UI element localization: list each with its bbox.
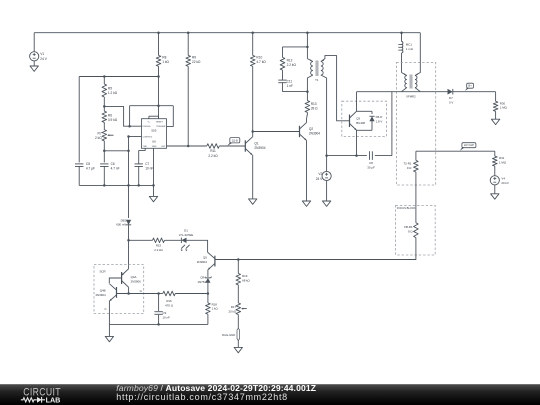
potentiometer R17 20k [236, 303, 241, 315]
svg-text:HV CAP: HV CAP [464, 143, 474, 147]
svg-text:10 nF: 10 nF [145, 167, 153, 171]
svg-text:D7: D7 [449, 96, 453, 100]
resistor R12 2.2k [280, 57, 285, 70]
resistor R10 4.7k [252, 33, 254, 56]
svg-text:R11: R11 [210, 149, 216, 153]
wire 555 OUT to R11 [167, 145, 207, 147]
LED D1 light arrows [181, 245, 185, 249]
capacitor C9 10nF [158, 294, 160, 312]
svg-text:2N3904: 2N3904 [95, 293, 106, 297]
pin V+ top [148, 116, 150, 119]
svg-text:1 kΩ: 1 kΩ [162, 60, 169, 64]
svg-text:Q5: Q5 [203, 256, 207, 260]
svg-text:B+: B+ [468, 84, 472, 88]
svg-text:0 V: 0 V [449, 100, 453, 104]
svg-text:2.2 kΩ: 2.2 kΩ [154, 248, 163, 252]
svg-text:CONTROL: CONTROL [143, 136, 154, 138]
svg-text:1 kΩ: 1 kΩ [212, 307, 219, 311]
svg-text:R19: R19 [242, 274, 248, 278]
svg-text:C: C [105, 307, 107, 311]
svg-text:C8: C8 [369, 161, 373, 165]
wire top power rail [34, 32, 420, 34]
svg-text:68 kΩ: 68 kΩ [242, 279, 250, 283]
svg-text:GND: GND [152, 146, 157, 148]
svg-text:C6: C6 [111, 162, 115, 166]
svg-text:R13: R13 [311, 102, 317, 106]
capacitor C11 1nF [278, 79, 286, 81]
ground for V2 [322, 201, 330, 206]
svg-text:1 MΩ: 1 MΩ [500, 106, 508, 110]
svg-text:R30: R30 [500, 101, 506, 105]
transformer XFMR2 core [409, 75, 411, 89]
wire reset loop from R8 node [130, 105, 174, 107]
svg-text:R10: R10 [256, 56, 262, 60]
net flag Q1-B [230, 138, 240, 143]
ground for Q2 [302, 201, 310, 206]
resistor R13 39ohm [306, 92, 308, 101]
transformer T1 core [315, 61, 317, 77]
svg-text:D5-D: D5-D [376, 115, 383, 119]
wire XFMR2 bottom leads [402, 88, 407, 92]
transformer T1 left winding [311, 62, 313, 76]
resistor R6 3.9k [102, 111, 107, 122]
wire Q1 collector to Q2 base [253, 131, 300, 133]
wire Q4A collector to gate [128, 287, 130, 293]
wire [103, 122, 105, 129]
svg-text:R16: R16 [166, 299, 172, 303]
svg-text:24 V: 24 V [40, 57, 47, 61]
wire [282, 70, 284, 80]
wire SCR cathode [108, 301, 110, 325]
wire R15 to D1 [165, 239, 182, 241]
wire Q4A base to Q4B collector [109, 278, 121, 283]
wire Q5 emitter to CR4 [207, 270, 209, 277]
svg-text:R31: R31 [499, 156, 505, 160]
svg-text:D1: D1 [184, 228, 188, 232]
svg-text:24 V: 24 V [316, 177, 323, 181]
transformer XFMR2 dots [404, 74, 405, 75]
wire C8 to collector node riser [375, 155, 392, 157]
diode D7 [448, 89, 453, 95]
net flag DAG-GND [237, 328, 240, 340]
wire V2/emitter node [327, 155, 367, 157]
zener CR4 1N754 [205, 278, 210, 283]
transformer T1 dots [310, 60, 311, 61]
voltage source V1 24V [33, 33, 35, 52]
svg-text:2.2 kΩ: 2.2 kΩ [287, 63, 297, 67]
svg-text:2N3904: 2N3904 [254, 146, 265, 150]
resistor R15 2.2k [153, 238, 165, 243]
resistor T2-R1 9ohm [415, 151, 417, 160]
net flag HV CAP [462, 143, 476, 148]
svg-text:R12: R12 [287, 58, 293, 62]
svg-text:2N3906: 2N3906 [131, 280, 142, 284]
wire R16 to CR4/R18 node [159, 293, 163, 295]
wire R11 to Q1 base [219, 145, 245, 147]
svg-text:4.7 nF: 4.7 nF [111, 167, 120, 171]
wire R10 bottom to Q1 collector [252, 66, 254, 137]
capacitor C8 30uF snubber [368, 151, 370, 160]
svg-text:U6: U6 [152, 140, 156, 144]
svg-text:T1: T1 [315, 78, 319, 82]
dashed box FOCUS BLOCK [396, 205, 436, 255]
svg-text:http://circuitlab.com/c37347mm: http://circuitlab.com/c37347mm22ht8 [116, 392, 288, 402]
svg-text:CR4: CR4 [200, 276, 206, 280]
wire anode into SCR [128, 265, 130, 269]
resistor R11 2.2k [207, 144, 220, 149]
wire rail to XFMR2 right top [415, 33, 420, 76]
svg-text:600 mV: 600 mV [116, 223, 126, 227]
wire R8 bottom to 555 V+ [158, 66, 160, 118]
svg-text:1 MΩ: 1 MΩ [499, 161, 507, 165]
svg-text:2.2 kΩ: 2.2 kΩ [208, 154, 218, 158]
svg-text:R17: R17 [231, 305, 237, 309]
wire Q2 emitter [306, 140, 308, 201]
svg-text:1 mH: 1 mH [406, 47, 413, 51]
svg-text:XFMR2: XFMR2 [406, 94, 416, 98]
wire V+ sub-rail [79, 76, 158, 78]
wire flyback output bus [357, 91, 448, 93]
wire R17 to DAG-GND [237, 315, 239, 329]
svg-text:C7: C7 [145, 162, 149, 166]
wire FB-R1 to Q5 base rail [215, 238, 416, 260]
svg-text:R7: R7 [98, 131, 102, 135]
capacitor C7 10nF [135, 163, 143, 165]
svg-text:RESET: RESET [156, 122, 163, 124]
wire left column down to C8 [78, 77, 80, 163]
svg-text:3.9 kΩ: 3.9 kΩ [108, 118, 118, 122]
svg-text:2 kΩ: 2 kΩ [95, 136, 102, 140]
svg-text:LTL-307EE: LTL-307EE [179, 233, 193, 237]
wire [237, 285, 239, 303]
op-amp U6 555 timer IC body [142, 119, 167, 149]
wire HV node [416, 150, 495, 152]
ground for 555 [149, 196, 157, 201]
svg-text:R8: R8 [162, 56, 166, 60]
wire R9 bottom to 555 OUT net [187, 66, 189, 146]
wire R7 to C6 [103, 141, 105, 163]
diode DB1 600mV [128, 185, 130, 218]
svg-text:Q1-B: Q1-B [232, 139, 238, 142]
resistor R16 470ohm [163, 291, 176, 296]
svg-text:20 kΩ: 20 kΩ [228, 309, 236, 313]
wire node B to T1 [283, 91, 308, 93]
svg-text:LAB: LAB [46, 395, 61, 404]
svg-text:SCR: SCR [100, 270, 106, 274]
svg-text:THR: THR [143, 146, 148, 148]
wire T1 left bottom [307, 75, 313, 92]
voltage source V4 20kV [494, 166, 496, 176]
svg-text:22 kΩ: 22 kΩ [192, 60, 201, 64]
transistor Q2 2N3904 [299, 126, 301, 137]
svg-text:4.7 kΩ: 4.7 kΩ [256, 60, 266, 64]
wire [103, 97, 105, 111]
svg-text:30 µF: 30 µF [367, 166, 375, 170]
svg-text:C11: C11 [287, 79, 293, 83]
wire control pin [129, 136, 142, 138]
transformer T1 right winding [321, 62, 323, 76]
inductor MC1 1mH [401, 33, 403, 42]
svg-text:R6: R6 [108, 114, 112, 118]
dashed box Q3 driver [342, 101, 387, 136]
svg-text:10 nF: 10 nF [163, 315, 171, 319]
transistor Q4B 2N3904 (mirrored) [116, 287, 118, 298]
transistor Q3 BU408 [343, 120, 350, 122]
transistor Q1 2N3904 [244, 140, 246, 151]
svg-text:R15: R15 [156, 243, 162, 247]
resistor R19 68k [237, 260, 239, 274]
dashed box SCR [94, 265, 144, 314]
net flag B+ [467, 83, 474, 88]
svg-text:Q1: Q1 [254, 141, 258, 145]
svg-text:T2-R1: T2-R1 [403, 161, 411, 165]
transformer T1 primary lead [306, 33, 308, 59]
svg-text:2N3904: 2N3904 [197, 260, 208, 264]
potentiometer R7 2k [102, 130, 107, 141]
resistor R5 1.2k [103, 77, 105, 85]
wire Q2 collector to R13 [306, 119, 308, 123]
svg-text:Q2: Q2 [309, 127, 313, 131]
wire R12 top node [283, 46, 308, 48]
svg-text:2N3904: 2N3904 [309, 132, 320, 136]
wire T2-R1 down to focus block [415, 172, 417, 223]
svg-text:MC1: MC1 [406, 42, 412, 46]
resistor R18 1k [207, 294, 209, 303]
svg-text:470 Ω: 470 Ω [165, 303, 174, 307]
pin RESET top [158, 116, 160, 119]
capacitor C8 4.7uF [75, 163, 83, 165]
svg-text:1.8 V: 1.8 V [376, 120, 383, 124]
svg-text:DB1: DB1 [121, 218, 127, 222]
resistor FB-R1 9ohm [414, 223, 419, 238]
gate wire [117, 293, 159, 295]
wire Q5 base to right rail [214, 259, 217, 261]
svg-text:20 kV: 20 kV [501, 181, 508, 185]
wire C11 to node B [282, 82, 284, 91]
svg-text:DAG-GND: DAG-GND [222, 333, 235, 337]
wire control node tap [104, 150, 128, 152]
ground for Q1 [249, 199, 257, 204]
svg-text:R18: R18 [212, 302, 218, 306]
capacitor C6 4.7nF [100, 163, 108, 165]
svg-text:Q4A: Q4A [131, 275, 137, 279]
svg-text:V4: V4 [501, 177, 505, 181]
svg-text:555: 555 [151, 128, 156, 132]
svg-text:BU408: BU408 [356, 121, 365, 125]
svg-text:Q3: Q3 [356, 117, 360, 121]
svg-text:1 nF: 1 nF [287, 84, 293, 88]
svg-text:39 Ω: 39 Ω [311, 107, 318, 111]
wire control node vertical [128, 137, 130, 186]
svg-text:C9: C9 [163, 311, 167, 315]
svg-text:R9: R9 [192, 56, 196, 60]
svg-text:R5: R5 [108, 87, 112, 91]
ground for V4 [494, 185, 496, 194]
wire bottom bus of oscillator [79, 184, 153, 186]
pin GND bottom [153, 148, 155, 196]
wire D7 to R30 [453, 91, 496, 93]
resistor R8 1k [158, 33, 160, 56]
wire Q1 emitter [252, 155, 254, 199]
diode D5-D 1.8V [371, 111, 373, 114]
transistor Q4A 2N3906 [121, 272, 123, 284]
svg-text:1N754: 1N754 [197, 280, 206, 284]
wire T1 right top to Q3 base [321, 56, 343, 121]
wire T1 right bottom to V2 [321, 75, 327, 156]
svg-text:V2: V2 [318, 172, 322, 176]
ground for V1 [30, 66, 38, 71]
LED D1 LTL-307EE [181, 238, 186, 243]
wire cathode bus [109, 323, 207, 325]
ground DAG [234, 347, 242, 352]
svg-text:4.7 µF: 4.7 µF [86, 167, 95, 171]
resistor R30 1M [495, 92, 497, 102]
wire D1 to Q5 collector [187, 240, 208, 252]
svg-text:TRIGGER: TRIGGER [156, 126, 166, 128]
resistor R9 22k [187, 33, 189, 56]
transformer XFMR2 left winding [402, 73, 407, 76]
dashed box flyback transformer [396, 62, 435, 185]
svg-text:V1: V1 [40, 52, 44, 56]
svg-text:FB-R1: FB-R1 [404, 225, 413, 229]
wire gate drive [129, 239, 153, 241]
svg-text:FOCUS BLOCK: FOCUS BLOCK [397, 206, 416, 210]
ground for R30 [495, 111, 497, 119]
transformer XFMR2 right winding [415, 76, 417, 88]
wire threshold feed from R5/R6 node [104, 106, 141, 126]
svg-text:DISCHG: DISCHG [143, 126, 151, 128]
resistor R31 1M [494, 151, 496, 156]
voltage source V2 24V [322, 171, 331, 180]
ground for SCR [108, 324, 110, 336]
transistor Q5 2N3904 (mirrored) [214, 256, 216, 267]
wire D5 bottom to emitter [357, 129, 373, 131]
svg-text:Q4B: Q4B [100, 289, 106, 293]
wire collector to D5 [357, 110, 373, 112]
svg-text:1.2 kΩ: 1.2 kΩ [108, 91, 118, 95]
wire Q3 collector riser [356, 92, 358, 112]
svg-text:C8: C8 [86, 162, 90, 166]
